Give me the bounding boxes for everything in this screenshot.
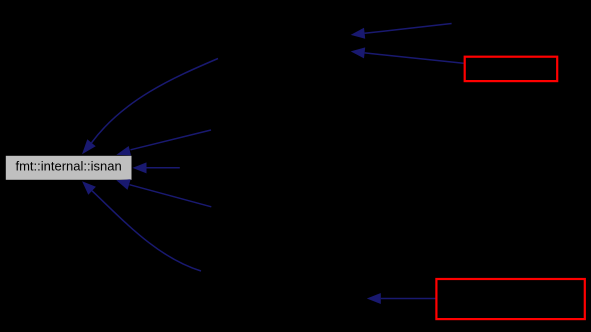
edge R1b: red node 1 -> top caller xyxy=(351,47,464,63)
edge E5: bottom caller -> isnan (curved) xyxy=(82,181,201,271)
edge E3: third caller -> isnan (horizontal) xyxy=(133,162,180,173)
edge R1a: top-right node -> top caller xyxy=(351,24,452,39)
edge R2: red node 2 -> bottom caller (horizontal) xyxy=(367,293,436,304)
edge E4: fourth caller -> isnan xyxy=(116,179,211,207)
red node 1 (truncated caller, red border) xyxy=(465,57,558,81)
red node 2 (truncated caller, red border) xyxy=(436,279,584,319)
edge E2: second caller -> isnan xyxy=(116,130,211,155)
edge E1: top caller -> isnan (curved) xyxy=(82,59,218,155)
node fmt::internal::isnan (current node, grey fill) xyxy=(6,156,132,180)
svg-text:fmt::internal::isnan: fmt::internal::isnan xyxy=(15,158,121,173)
